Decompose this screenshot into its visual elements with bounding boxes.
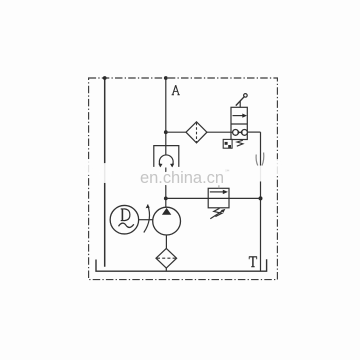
wire: strainer to tank	[165, 268, 167, 271]
node A label	[172, 85, 180, 95]
relief valve vent stub	[218, 176, 220, 189]
svg-text:℠: ℠	[225, 169, 231, 176]
hand valve lever knob	[244, 94, 248, 98]
tank (open rectangle)	[96, 259, 267, 271]
relief valve body	[208, 188, 229, 208]
junction at pump outlet / relief branch	[164, 197, 168, 201]
hand valve flow arrow (top cell)	[233, 115, 244, 117]
svg-text:en.china.cn: en.china.cn	[140, 169, 224, 187]
shaft line motor-pump	[139, 219, 153, 221]
relief valve adjustable spring	[214, 208, 222, 216]
hand valve position divider	[231, 123, 247, 125]
wire: branch to pressure filter	[166, 131, 186, 133]
pressure filter diamond	[186, 122, 207, 143]
motor AC tilde	[119, 223, 134, 227]
wire: main pressure line from node A down	[165, 78, 167, 155]
wire: valve outlet to drain corner	[247, 131, 260, 133]
suction strainer diamond	[156, 249, 177, 269]
motor letter D	[121, 209, 130, 221]
hand valve lever	[236, 96, 245, 105]
wire: pump suction	[165, 235, 167, 249]
hand valve body (2 position)	[231, 107, 247, 139]
wire: coupling to pump	[165, 168, 167, 208]
junction drain / relief	[259, 196, 263, 200]
hand valve spring	[237, 140, 243, 146]
pressure filter dashed element	[196, 123, 198, 143]
coupling rotary arc with arrows	[159, 155, 173, 166]
coupling bracket (inverted U)	[154, 146, 179, 167]
relief valve adjustment arrow	[210, 210, 223, 219]
suction strainer dashed element	[157, 257, 176, 259]
relief valve flow arrow	[210, 191, 224, 193]
detent notch marks	[225, 142, 228, 145]
watermark white fade blobs	[99, 163, 111, 183]
wire: left tank return line	[104, 78, 106, 267]
rotation direction arrow	[144, 205, 150, 233]
enclosure border (dash-dot)	[89, 78, 278, 280]
watermark curl marks	[256, 155, 258, 166]
tank label T	[249, 257, 257, 267]
hand valve coupling circles (bottom cell)	[233, 130, 239, 136]
motor M circle	[110, 205, 138, 234]
wire: right drain line down to tank	[260, 132, 262, 271]
junction node at filter branch	[164, 130, 168, 134]
wire: relief line pump to drain	[166, 197, 261, 199]
hand valve through line (bottom cell)	[231, 131, 247, 133]
junction on top border (node A)	[164, 76, 168, 80]
hand valve lever stem	[239, 101, 241, 108]
pump outlet triangle (filled)	[162, 208, 171, 215]
hand valve detent box	[223, 139, 232, 148]
hand valve bowtie seats	[238, 130, 241, 135]
wire: filter to hand valve	[207, 131, 231, 133]
pump circle	[153, 207, 181, 235]
junction on top border (left line)	[103, 76, 107, 80]
